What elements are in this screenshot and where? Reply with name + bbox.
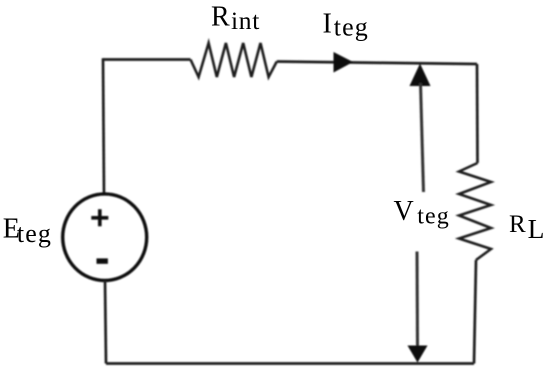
plus symbol xyxy=(91,209,108,226)
resistor R_L xyxy=(459,163,491,260)
wire left vertical upper segment xyxy=(103,58,104,194)
svg-text:I: I xyxy=(323,9,332,40)
wire right vertical lower segment xyxy=(474,260,476,364)
svg-text:L: L xyxy=(528,213,545,244)
label R_int xyxy=(211,2,260,35)
wire left vertical lower segment xyxy=(105,280,106,363)
current arrowhead I_teg xyxy=(334,52,354,73)
V_teg arrow shaft upper xyxy=(421,83,424,192)
V_teg arrow down head xyxy=(408,346,428,363)
svg-text:R: R xyxy=(509,211,526,238)
wire top-right horizontal segment xyxy=(277,62,477,65)
label V_teg xyxy=(394,196,450,230)
voltage source E_teg circle xyxy=(63,194,147,281)
V_teg arrow shaft lower xyxy=(416,252,420,347)
V_teg arrow up head xyxy=(410,64,431,87)
svg-text:teg: teg xyxy=(334,13,369,42)
svg-text:teg: teg xyxy=(17,219,52,248)
wire top-left horizontal segment xyxy=(103,58,191,61)
svg-text:int: int xyxy=(231,6,260,35)
resistor R_int xyxy=(191,43,277,77)
svg-text:teg: teg xyxy=(417,204,450,230)
svg-text:V: V xyxy=(394,196,414,227)
wire bottom horizontal xyxy=(106,362,474,365)
label R_L xyxy=(509,211,544,244)
label E_teg xyxy=(3,213,52,248)
wire right vertical upper segment xyxy=(476,64,479,163)
label I_teg xyxy=(323,9,369,42)
svg-text:R: R xyxy=(211,2,230,33)
minus symbol xyxy=(97,258,108,263)
